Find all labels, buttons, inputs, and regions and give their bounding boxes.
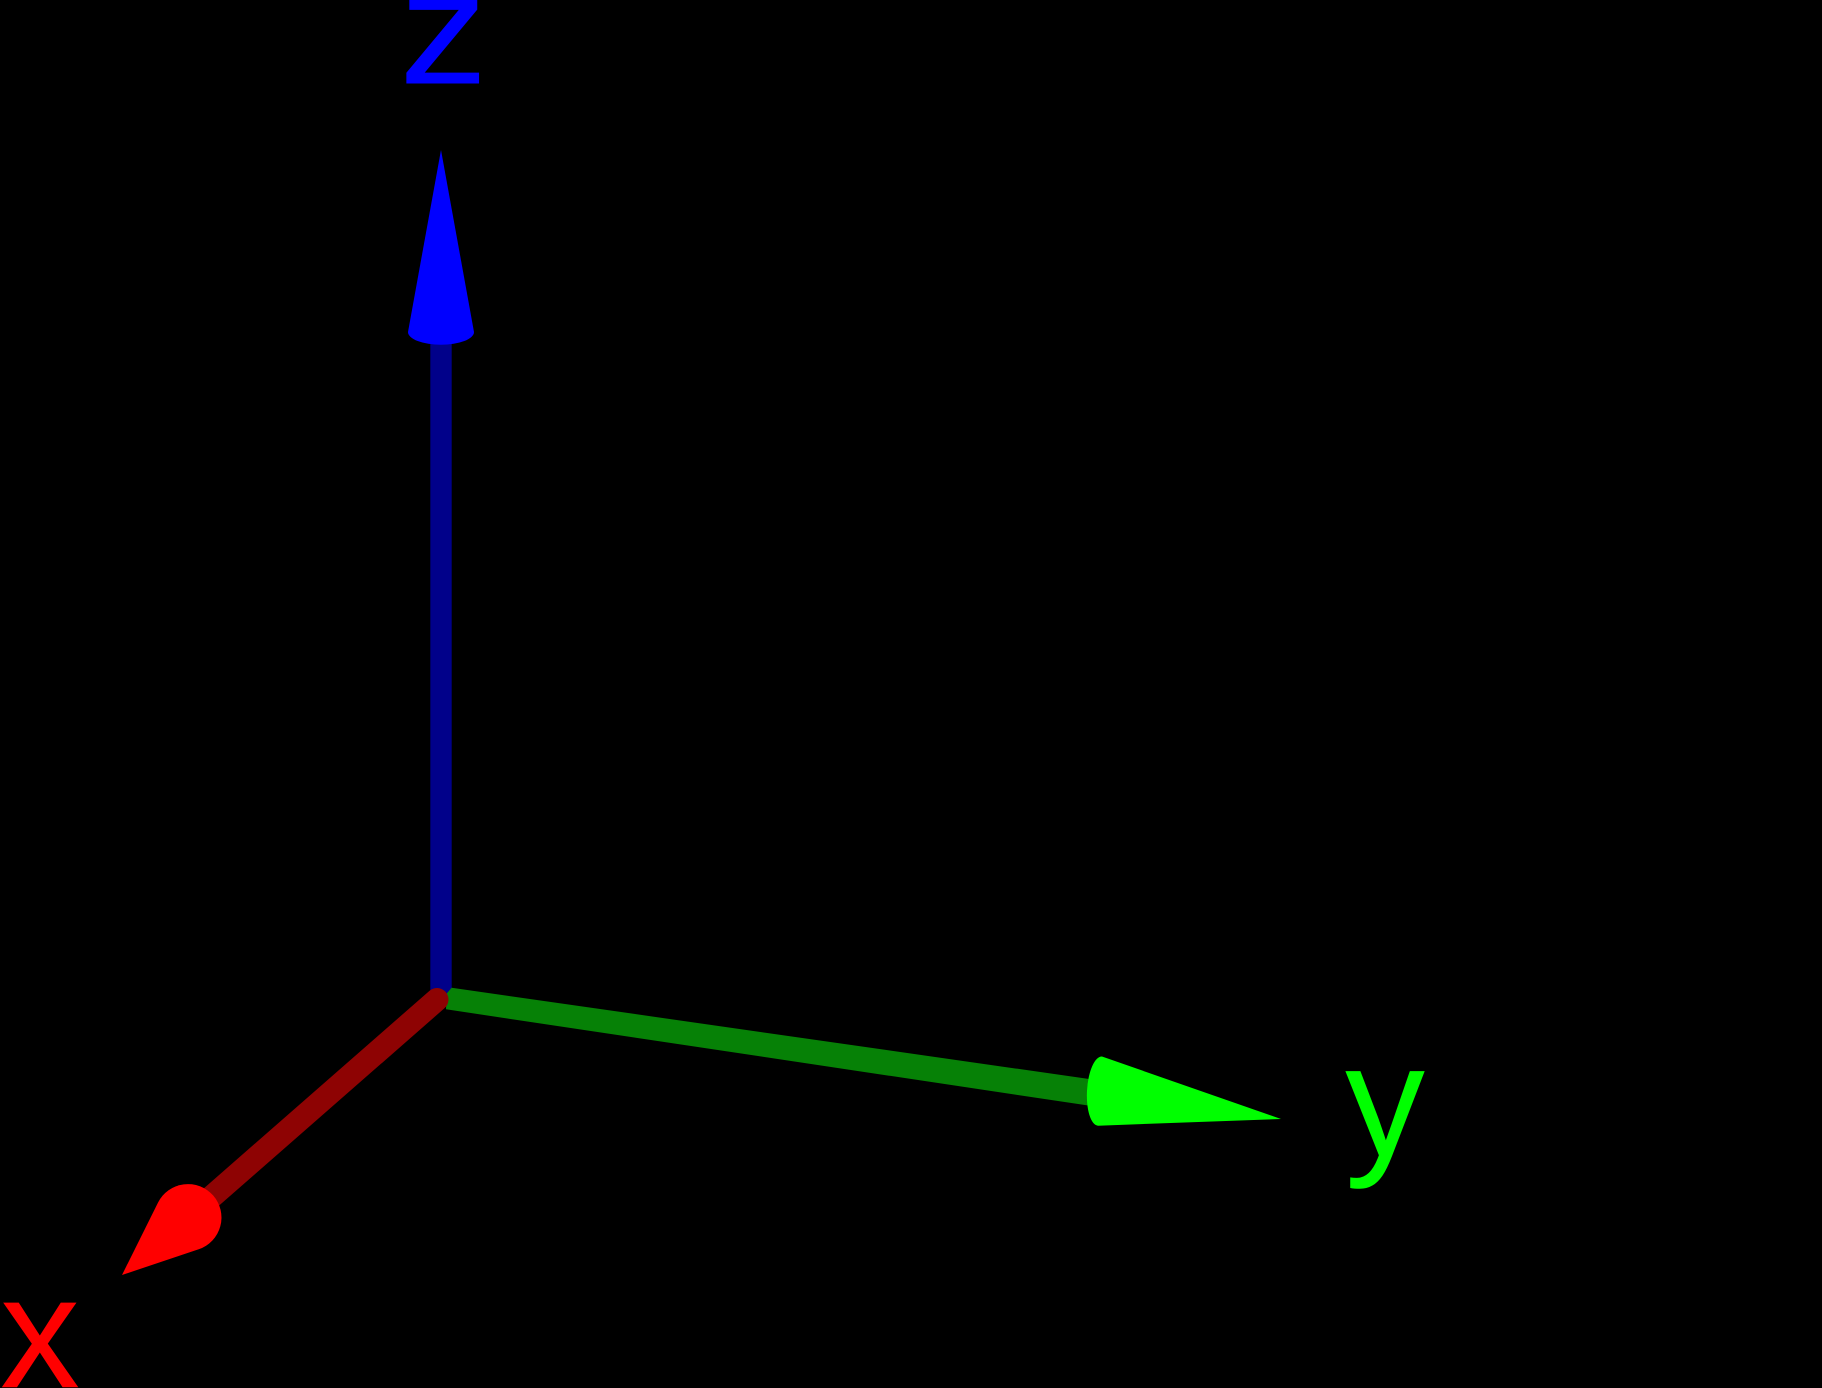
svg-text:y: y [1345,1011,1425,1190]
y-axis shaft (green cylinder) [446,988,1110,1109]
svg-text:x: x [0,1242,80,1388]
svg-text:z: z [399,0,488,118]
x-axis arrowhead (red cone, teardrop toward viewer) [122,1184,221,1275]
y-axis arrowhead (green cone) [1087,1056,1281,1125]
z-axis shaft (blue cylinder) [430,338,451,1000]
z-axis arrowhead (blue cone) [408,150,474,345]
x-axis shaft (dark red cylinder, rounded cap at origin) [188,1000,437,1218]
